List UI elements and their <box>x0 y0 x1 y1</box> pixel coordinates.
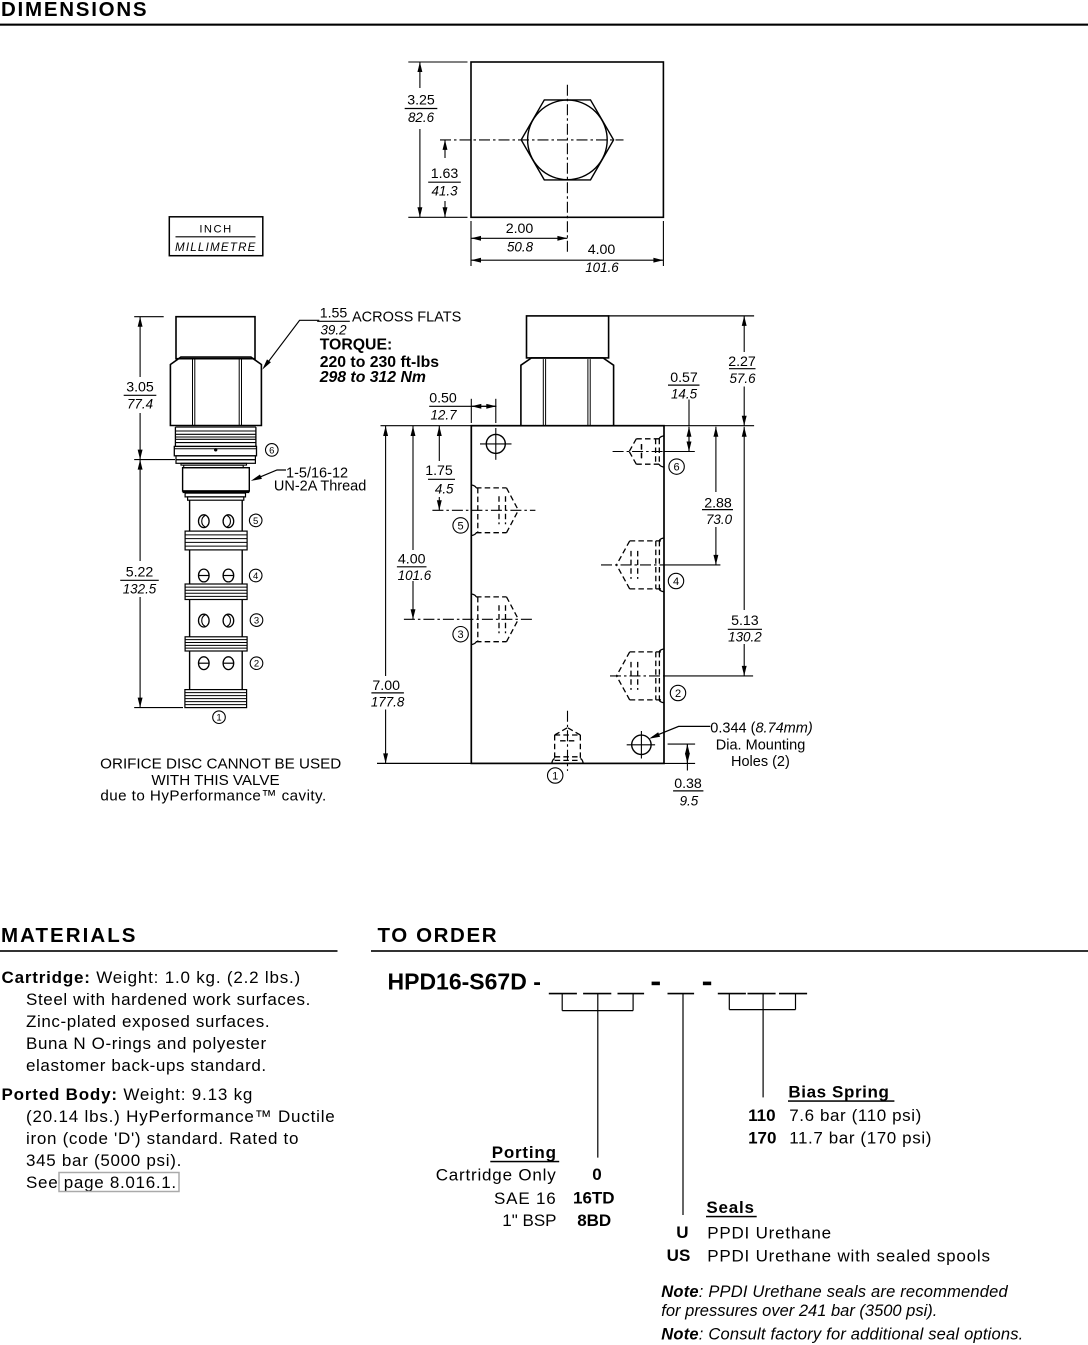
svg-text:101.6: 101.6 <box>398 568 432 583</box>
svg-text:Note: Consult factory for add: Note: Consult factory for additional sea… <box>661 1325 1023 1343</box>
svg-text:77.4: 77.4 <box>127 397 153 412</box>
svg-text:130.2: 130.2 <box>728 629 762 644</box>
svg-text:2.00: 2.00 <box>506 221 534 237</box>
svg-text:11.7 bar (170 psi): 11.7 bar (170 psi) <box>789 1128 932 1147</box>
svg-text:Bias Spring: Bias Spring <box>788 1083 889 1102</box>
svg-text:(20.14 lbs.) HyPerformance™ Du: (20.14 lbs.) HyPerformance™ Ductile <box>26 1107 336 1126</box>
svg-text:3: 3 <box>458 629 464 641</box>
svg-text:4: 4 <box>673 576 679 588</box>
svg-text:2: 2 <box>675 688 681 700</box>
svg-text:0.57: 0.57 <box>670 370 698 386</box>
svg-text:1: 1 <box>216 713 221 724</box>
svg-text:3.05: 3.05 <box>126 379 154 395</box>
svg-text:3.25: 3.25 <box>407 93 435 109</box>
svg-text:5.22: 5.22 <box>126 564 154 580</box>
svg-text:1" BSP: 1" BSP <box>502 1211 556 1230</box>
svg-text:7.6 bar (110 psi): 7.6 bar (110 psi) <box>789 1106 922 1125</box>
svg-text:132.5: 132.5 <box>123 582 157 597</box>
svg-text:9.5: 9.5 <box>680 794 699 809</box>
svg-text:1: 1 <box>552 770 558 782</box>
svg-text:16TD: 16TD <box>573 1188 615 1207</box>
svg-text:12.7: 12.7 <box>430 408 457 423</box>
svg-text:5.13: 5.13 <box>731 613 759 629</box>
svg-text:PPDI Urethane: PPDI Urethane <box>707 1223 832 1242</box>
svg-text:57.6: 57.6 <box>729 371 756 386</box>
svg-text:4.5: 4.5 <box>435 482 454 497</box>
svg-text:PPDI Urethane with sealed spoo: PPDI Urethane with sealed spools <box>707 1247 991 1266</box>
svg-text:SAE 16: SAE 16 <box>494 1189 556 1208</box>
svg-text:5: 5 <box>253 516 258 527</box>
svg-text:INCH: INCH <box>199 223 232 235</box>
svg-text:4.00: 4.00 <box>398 551 426 567</box>
svg-text:4: 4 <box>253 571 258 582</box>
svg-text:110: 110 <box>748 1106 775 1125</box>
svg-text:1.55: 1.55 <box>320 305 348 321</box>
svg-text:due to HyPerformance™ cavity.: due to HyPerformance™ cavity. <box>100 788 326 805</box>
svg-text:Note: PPDI Urethane seals are: Note: PPDI Urethane seals are recommende… <box>661 1283 1008 1301</box>
svg-text:298 to 312 Nm: 298 to 312 Nm <box>319 369 426 386</box>
svg-text:See page 8.016.1.: See page 8.016.1. <box>26 1173 177 1192</box>
svg-text:2.27: 2.27 <box>728 354 756 370</box>
svg-text:101.6: 101.6 <box>585 260 619 275</box>
svg-text:U: U <box>676 1223 688 1242</box>
svg-text:Buna N O-rings and polyester: Buna N O-rings and polyester <box>26 1034 267 1053</box>
svg-text:Porting: Porting <box>492 1143 557 1162</box>
svg-text:6: 6 <box>269 445 274 456</box>
svg-text:177.8: 177.8 <box>371 694 405 709</box>
svg-text:TORQUE:: TORQUE: <box>320 336 393 353</box>
svg-text:1.75: 1.75 <box>425 463 453 479</box>
svg-text:8BD: 8BD <box>577 1211 611 1230</box>
svg-text:5: 5 <box>458 520 464 532</box>
svg-text:Dia. Mounting: Dia. Mounting <box>716 737 805 753</box>
svg-text:0: 0 <box>592 1165 601 1184</box>
svg-text:3: 3 <box>254 616 259 627</box>
svg-text:WITH THIS VALVE: WITH THIS VALVE <box>151 772 279 789</box>
svg-text:82.6: 82.6 <box>408 110 435 125</box>
svg-text:Ported Body: Weight: 9.13 kg: Ported Body: Weight: 9.13 kg <box>2 1085 254 1104</box>
svg-text:0.50: 0.50 <box>429 391 457 407</box>
svg-text:ORIFICE DISC CANNOT BE USED: ORIFICE DISC CANNOT BE USED <box>100 755 341 772</box>
svg-text:Zinc-plated exposed surfaces.: Zinc-plated exposed surfaces. <box>26 1012 270 1031</box>
svg-text:345 bar (5000 psi).: 345 bar (5000 psi). <box>26 1151 182 1170</box>
svg-text:elastomer back-ups standard.: elastomer back-ups standard. <box>26 1056 267 1075</box>
svg-text:1.63: 1.63 <box>431 166 459 182</box>
svg-text:0.38: 0.38 <box>674 776 702 792</box>
svg-text:Cartridge Only: Cartridge Only <box>436 1166 557 1185</box>
svg-text:4.00: 4.00 <box>588 242 616 258</box>
svg-text:73.0: 73.0 <box>706 512 733 527</box>
svg-text:MATERIALS: MATERIALS <box>1 924 138 947</box>
svg-text:6: 6 <box>674 462 680 474</box>
svg-text:iron (code 'D') standard. Rate: iron (code 'D') standard. Rated to <box>26 1129 299 1148</box>
svg-text:UN-2A Thread: UN-2A Thread <box>274 478 366 494</box>
svg-text:ACROSS FLATS: ACROSS FLATS <box>352 309 461 325</box>
svg-text:DIMENSIONS: DIMENSIONS <box>1 0 148 21</box>
svg-text:HPD16-S67D -: HPD16-S67D - <box>388 969 541 995</box>
svg-text:50.8: 50.8 <box>507 239 534 254</box>
svg-text:7.00: 7.00 <box>372 678 400 694</box>
svg-text:US: US <box>667 1246 691 1265</box>
svg-text:for pressures over 241 bar (35: for pressures over 241 bar (3500 psi). <box>661 1302 937 1320</box>
svg-text:Seals: Seals <box>706 1198 754 1217</box>
svg-text:14.5: 14.5 <box>671 386 698 401</box>
svg-text:Steel with hardened work surfa: Steel with hardened work surfaces. <box>26 990 311 1009</box>
svg-text:Holes (2): Holes (2) <box>731 754 790 770</box>
svg-text:TO ORDER: TO ORDER <box>378 924 499 947</box>
svg-text:2: 2 <box>254 659 259 670</box>
svg-text:41.3: 41.3 <box>431 184 458 199</box>
svg-text:170: 170 <box>748 1128 776 1147</box>
svg-text:MILLIMETRE: MILLIMETRE <box>175 241 257 254</box>
svg-text:0.344 (8.74mm): 0.344 (8.74mm) <box>710 720 812 736</box>
svg-text:Cartridge: Weight: 1.0 kg. (2.: Cartridge: Weight: 1.0 kg. (2.2 lbs.) <box>2 968 302 987</box>
